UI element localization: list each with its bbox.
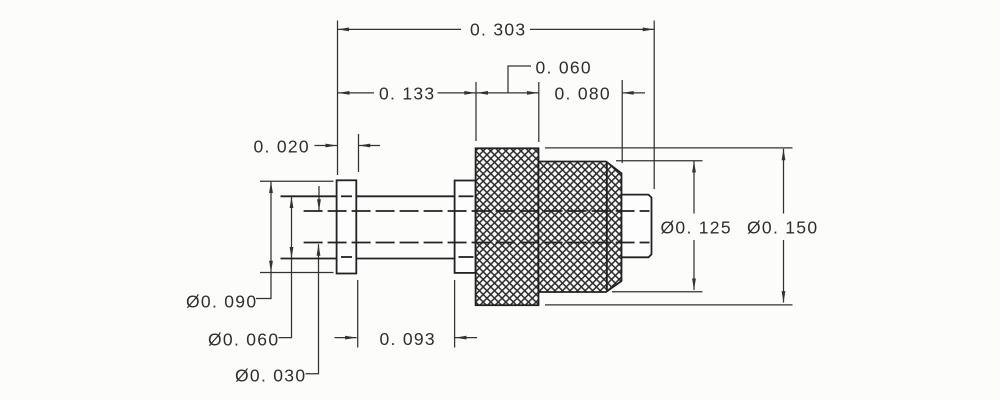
arrowhead dia0.150 up [782,149,786,161]
dia 0.150 extension lines [545,147,793,149]
medium knurl body [539,162,622,293]
shaft top line [281,195,337,197]
dia 0.030 upper arrow line [318,186,320,211]
arrowhead 0.080 right (pointing left) [622,91,634,95]
arrowhead 0.020 right (pointing left) [359,144,371,148]
arrowhead 0.093 left (pointing right) [345,336,357,340]
dia 0.150 dimension line (broken at text) [783,149,785,214]
dimension texts [186,20,818,386]
arrowhead 0.060 left [477,91,489,95]
big knurl body [476,148,539,305]
svg-text:0. 020: 0. 020 [254,136,310,156]
dim 0.093 arrow tails [335,337,357,339]
arrowhead 0.303 left [338,28,350,32]
dim 0.020 arrow tails [315,145,338,147]
svg-text:Ø0. 150: Ø0. 150 [747,218,818,238]
flange rectangle [337,180,357,273]
dim 0.060 line [476,92,539,94]
leader 0.060 [508,66,531,93]
svg-text:0. 303: 0. 303 [470,20,526,40]
svg-text:0. 093: 0. 093 [380,329,436,349]
svg-text:Ø0. 125: Ø0. 125 [661,218,732,238]
extension line left (x=337.5) [337,21,339,176]
arrowhead dia0.125 down [692,279,696,291]
arrowhead 0.093 right (pointing left) [455,336,467,340]
part outline [281,148,652,305]
dia 0.090 extension lines [260,180,334,182]
dim 0.303 line [338,28,462,30]
dim 0.093 extension lines [357,280,359,348]
arrowhead 0.060/0.080 shared right [527,91,539,95]
svg-text:0. 133: 0. 133 [379,84,435,104]
hidden dashes of shaft inside flange [341,196,474,257]
arrowhead 0.133 right [464,91,476,95]
dia 0.060 dimension line and leader [279,197,292,338]
svg-text:Ø0. 030: Ø0. 030 [235,366,306,386]
dia 0.125 dimension line (broken at text) [693,161,695,214]
dia 0.090 dimension line and leader [256,182,271,299]
chamfer tangent line [606,162,608,293]
dim 0.080 right arrow tail [622,92,645,94]
svg-text:Ø0. 060: Ø0. 060 [208,329,279,349]
extension line medium knurl right (x=622.2) [621,80,623,163]
svg-text:Ø0. 090: Ø0. 090 [186,291,257,311]
arrowhead 0.303 right [643,28,655,32]
dim 0.133 line [338,92,375,94]
arrowhead dia0.060 up [290,197,294,209]
svg-text:0. 080: 0. 080 [555,84,611,104]
arrowhead dia0.030 down [317,199,321,211]
extension line right end (x=654.2) [653,21,655,190]
arrowhead dia0.090 up [269,182,273,194]
extension line knurl left (x=476) [475,82,477,141]
hidden dashes of shaft inside collar [459,195,474,197]
arrowhead dia0.125 up [692,161,696,173]
hole hidden lines [304,211,650,243]
shaft bottom line [281,258,337,260]
arrowhead dia0.150 down [782,291,786,303]
arrowhead 0.020 left (pointing right) [326,144,338,148]
dia 0.125 extension lines [616,160,703,162]
arrowhead dia0.030 up [317,244,321,256]
arrowhead dia0.060 down [290,247,294,259]
collar rectangle [455,181,476,273]
arrowhead 0.133 left [338,91,350,95]
dia 0.030 lower arrow line and leader [306,244,319,374]
extension line flange right (x=358.5) [358,134,360,172]
pin [622,195,652,258]
arrowhead dia0.090 down [269,261,273,273]
svg-text:0. 060: 0. 060 [536,58,592,78]
extension line knurl step (x=538.8) [538,82,540,142]
